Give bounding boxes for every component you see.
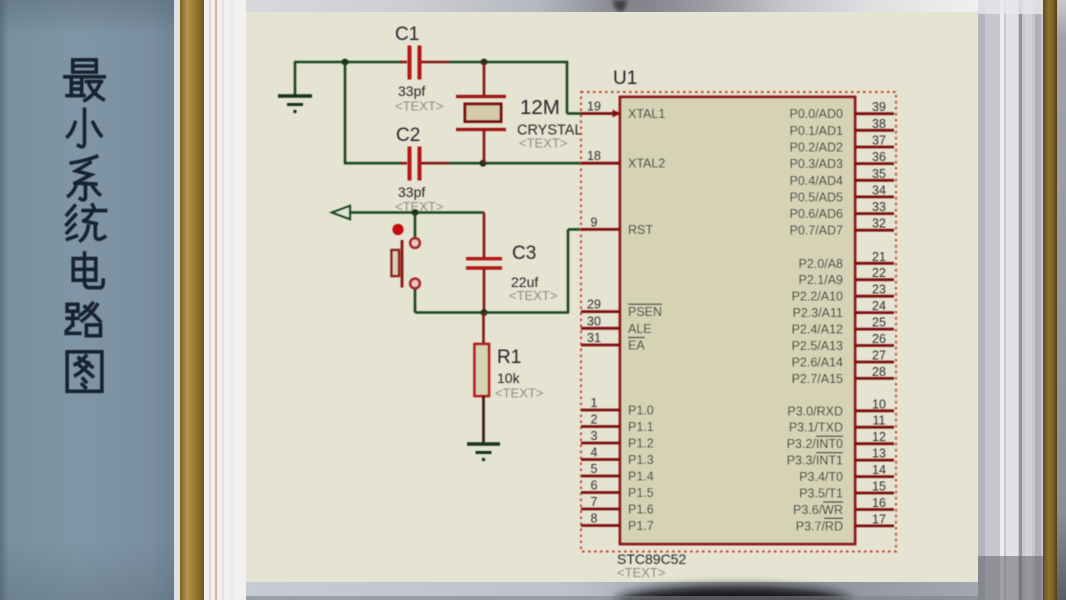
- svg-text:16: 16: [872, 496, 886, 510]
- svg-text:P0.6/AD6: P0.6/AD6: [789, 207, 843, 221]
- svg-text:25: 25: [872, 316, 886, 330]
- pin 8 P1.7: [581, 512, 654, 534]
- svg-text:P0.2/AD2: P0.2/AD2: [789, 141, 843, 155]
- wire RST to pin 9: [484, 229, 583, 313]
- svg-text:35: 35: [872, 167, 886, 181]
- svg-text:6: 6: [591, 479, 598, 493]
- wire RST top: [350, 211, 484, 214]
- svg-text:P3.5/T1: P3.5/T1: [799, 487, 843, 501]
- wire XTAL2 net bottom: [344, 162, 583, 165]
- svg-text:15: 15: [872, 480, 886, 494]
- svg-text:<TEXT>: <TEXT>: [617, 565, 665, 580]
- capacitor C1: [400, 46, 449, 80]
- pin 6 P1.5: [581, 479, 654, 501]
- pin 14 P3.4/T0: [799, 463, 894, 484]
- svg-text:P2.1/A9: P2.1/A9: [799, 273, 844, 287]
- pin 39 P0.0/AD0: [789, 100, 894, 121]
- pin 1 P1.0: [581, 396, 654, 418]
- pin 25 P2.4/A12: [792, 316, 894, 337]
- pin 17 P3.7/RD: [796, 512, 894, 533]
- svg-text:ALE: ALE: [628, 322, 652, 336]
- svg-text:23: 23: [872, 283, 886, 297]
- right cover edge: [1057, 0, 1066, 600]
- svg-text:37: 37: [872, 134, 886, 148]
- top page-stack band: [246, 0, 978, 13]
- svg-text:P3.7/RD: P3.7/RD: [796, 519, 843, 533]
- pin 9 RST: [581, 215, 653, 237]
- svg-text:26: 26: [872, 332, 886, 346]
- pin 11 P3.1/TXD: [789, 414, 894, 435]
- svg-text:P0.0/AD0: P0.0/AD0: [789, 107, 843, 121]
- white pages strip: [204, 0, 246, 600]
- wire button bottom: [415, 289, 484, 313]
- svg-text:EA: EA: [628, 339, 645, 353]
- svg-text:XTAL2: XTAL2: [628, 157, 665, 171]
- svg-text:P3.3/INT1: P3.3/INT1: [787, 454, 843, 468]
- bottom shadow band: [246, 582, 978, 600]
- pin 30 ALE: [581, 314, 652, 336]
- pin 23 P2.2/A10: [792, 283, 894, 304]
- book cover blue panel: [0, 0, 174, 600]
- svg-text:C2: C2: [396, 125, 420, 146]
- svg-text:PSEN: PSEN: [628, 305, 662, 319]
- svg-text:C3: C3: [512, 243, 536, 264]
- pin 4 P1.3: [581, 446, 654, 468]
- pin 10 P3.0/RXD: [787, 397, 894, 418]
- svg-text:7: 7: [591, 495, 598, 509]
- svg-text:11: 11: [873, 414, 886, 428]
- pin 36 P0.3/AD3: [789, 150, 894, 171]
- right page-stack area: [978, 0, 1043, 600]
- svg-text:27: 27: [872, 349, 886, 363]
- capacitor C3: [466, 213, 502, 313]
- gold deckle strip left: [180, 0, 204, 600]
- svg-text:P1.7: P1.7: [628, 519, 654, 533]
- svg-text:17: 17: [872, 512, 886, 526]
- svg-text:<TEXT>: <TEXT>: [509, 288, 557, 303]
- node junction top-left: [342, 59, 349, 66]
- svg-text:P3.0/RXD: P3.0/RXD: [787, 404, 843, 418]
- svg-text:12: 12: [872, 430, 886, 444]
- svg-text:<TEXT>: <TEXT>: [519, 136, 567, 151]
- svg-text:28: 28: [872, 365, 886, 379]
- svg-text:4: 4: [591, 446, 598, 460]
- svg-text:XTAL1: XTAL1: [628, 107, 665, 121]
- svg-text:2: 2: [591, 413, 598, 427]
- svg-text:P2.0/A8: P2.0/A8: [799, 257, 844, 271]
- pin 29 PSEN: [581, 298, 662, 320]
- svg-text:P1.1: P1.1: [628, 420, 654, 434]
- node junction crystal bottom: [480, 160, 487, 167]
- pin 34 P0.5/AD5: [789, 183, 894, 204]
- svg-text:10: 10: [872, 397, 886, 411]
- svg-text:8: 8: [591, 512, 598, 526]
- svg-text:10k: 10k: [497, 370, 521, 386]
- svg-text:P0.3/AD3: P0.3/AD3: [789, 157, 843, 171]
- svg-text:P2.2/A10: P2.2/A10: [792, 290, 843, 304]
- svg-text:39: 39: [872, 100, 886, 114]
- svg-text:36: 36: [872, 150, 886, 164]
- pin 24 P2.3/A11: [792, 299, 894, 320]
- svg-text:34: 34: [872, 183, 886, 197]
- pin 18 XTAL2: [581, 149, 665, 171]
- ground (reset section): [467, 444, 500, 461]
- svg-text:RST: RST: [628, 223, 653, 237]
- book title vertical chinese text: [65, 60, 106, 391]
- svg-text:P0.5/AD5: P0.5/AD5: [789, 190, 843, 204]
- pin 12 P3.2/INT0: [787, 430, 894, 451]
- svg-text:P1.5: P1.5: [628, 486, 654, 500]
- svg-text:21: 21: [872, 250, 886, 264]
- wire XTAL1 net top: [294, 61, 582, 114]
- pin 37 P0.2/AD2: [789, 134, 894, 155]
- resistor R1: [475, 313, 490, 445]
- gold deckle strip right: [1043, 0, 1057, 600]
- svg-text:9: 9: [591, 215, 598, 229]
- svg-text:22: 22: [872, 266, 886, 280]
- svg-text:29: 29: [587, 298, 601, 312]
- pin 27 P2.6/A14: [792, 349, 894, 370]
- svg-text:38: 38: [872, 117, 886, 131]
- svg-text:P0.4/AD4: P0.4/AD4: [789, 174, 843, 188]
- pin 19 XTAL1: [581, 100, 665, 122]
- svg-text:C1: C1: [395, 24, 419, 45]
- svg-text:P3.6/WR: P3.6/WR: [793, 503, 843, 517]
- svg-text:P0.7/AD7: P0.7/AD7: [789, 224, 843, 238]
- svg-text:33: 33: [872, 200, 886, 214]
- pin 5 P1.4: [581, 462, 654, 484]
- svg-text:P2.7/A15: P2.7/A15: [792, 372, 843, 386]
- svg-text:13: 13: [872, 447, 886, 461]
- svg-text:P1.4: P1.4: [628, 470, 654, 484]
- mcu U1 body: [620, 97, 855, 544]
- svg-text:33pf: 33pf: [398, 184, 425, 200]
- svg-text:30: 30: [587, 314, 601, 328]
- svg-text:14: 14: [872, 463, 886, 477]
- dark notch top: [612, 0, 628, 11]
- svg-text:P2.5/A13: P2.5/A13: [792, 339, 843, 353]
- svg-text:18: 18: [587, 149, 601, 163]
- svg-text:24: 24: [872, 299, 886, 313]
- svg-text:P1.0: P1.0: [628, 404, 654, 418]
- pin 32 P0.7/AD7: [789, 217, 894, 238]
- pin 33 P0.6/AD6: [789, 200, 894, 221]
- pin 28 P2.7/A15: [792, 365, 894, 386]
- wire to button: [414, 213, 417, 239]
- svg-text:R1: R1: [497, 347, 521, 368]
- ground (crystal section): [278, 62, 312, 113]
- capacitor C2: [400, 147, 449, 181]
- svg-text:P0.1/AD1: P0.1/AD1: [789, 124, 843, 138]
- pin 2 P1.1: [581, 413, 654, 435]
- pin 22 P2.1/A9: [799, 266, 894, 287]
- pin 19 clock arrow: [613, 110, 622, 118]
- svg-text:5: 5: [591, 462, 598, 476]
- svg-text:12M: 12M: [520, 96, 560, 119]
- svg-text:P1.3: P1.3: [628, 453, 654, 467]
- svg-text:P2.4/A12: P2.4/A12: [792, 323, 843, 337]
- svg-text:19: 19: [587, 100, 601, 114]
- pin 13 P3.3/INT1: [787, 447, 894, 468]
- svg-text:P1.6: P1.6: [628, 503, 654, 517]
- svg-text:P1.2: P1.2: [628, 437, 654, 451]
- svg-text:<TEXT>: <TEXT>: [395, 99, 443, 114]
- svg-text:P3.1/TXD: P3.1/TXD: [789, 421, 843, 435]
- terminal arrow (reset net): [332, 206, 350, 219]
- svg-text:31: 31: [587, 331, 601, 345]
- pin 3 P1.2: [581, 429, 654, 451]
- pin 31 EA: [581, 331, 645, 353]
- svg-text:32: 32: [872, 217, 886, 231]
- svg-text:U1: U1: [613, 68, 637, 89]
- svg-text:P2.3/A11: P2.3/A11: [792, 306, 843, 320]
- svg-text:33pf: 33pf: [398, 83, 425, 99]
- pin 26 P2.5/A13: [792, 332, 894, 353]
- pin 38 P0.1/AD1: [789, 117, 894, 138]
- page edge white strip: [174, 0, 180, 600]
- svg-text:P3.4/T0: P3.4/T0: [799, 470, 843, 484]
- svg-text:<TEXT>: <TEXT>: [495, 386, 543, 401]
- node junction RST: [481, 309, 488, 316]
- wire ground to XTAL2 net: [344, 62, 347, 163]
- pin 16 P3.6/WR: [793, 496, 894, 517]
- svg-text:3: 3: [591, 429, 598, 443]
- pin 7 P1.6: [581, 495, 654, 517]
- svg-text:P2.6/A14: P2.6/A14: [792, 356, 843, 370]
- pin 15 P3.5/T1: [799, 480, 894, 501]
- svg-text:1: 1: [591, 396, 598, 410]
- node junction button top: [412, 209, 419, 216]
- push button K1: [392, 224, 420, 288]
- op-amp/mcu U1 dotted selection border: [581, 92, 896, 552]
- svg-text:P3.2/INT0: P3.2/INT0: [787, 437, 843, 451]
- pin 35 P0.4/AD4: [789, 167, 894, 188]
- crystal X1 12M: [456, 62, 506, 163]
- node junction crystal top: [481, 59, 488, 66]
- pin 21 P2.0/A8: [799, 250, 894, 271]
- schematic page (beige): [246, 12, 978, 582]
